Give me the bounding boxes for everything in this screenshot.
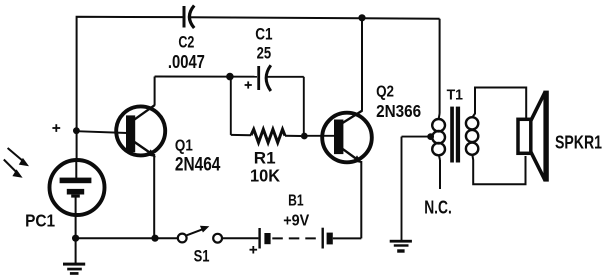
svg-text:C1: C1 [255,26,272,44]
svg-text:N.C.: N.C. [424,198,452,218]
svg-text:T1: T1 [447,86,463,103]
svg-text:+9V: +9V [283,213,309,230]
svg-text:SPKR1: SPKR1 [555,131,602,152]
svg-text:2N366: 2N366 [376,101,421,121]
svg-text:B1: B1 [288,192,304,209]
svg-text:S1: S1 [194,247,210,266]
svg-text:10K: 10K [250,166,280,186]
svg-text:25: 25 [257,44,272,62]
svg-text:Q2: Q2 [376,84,394,101]
svg-text:Q1: Q1 [175,137,193,154]
svg-text:.0047: .0047 [168,51,205,72]
svg-text:C2: C2 [178,32,194,51]
svg-text:2N464: 2N464 [175,155,221,176]
svg-text:PC1: PC1 [25,210,55,230]
